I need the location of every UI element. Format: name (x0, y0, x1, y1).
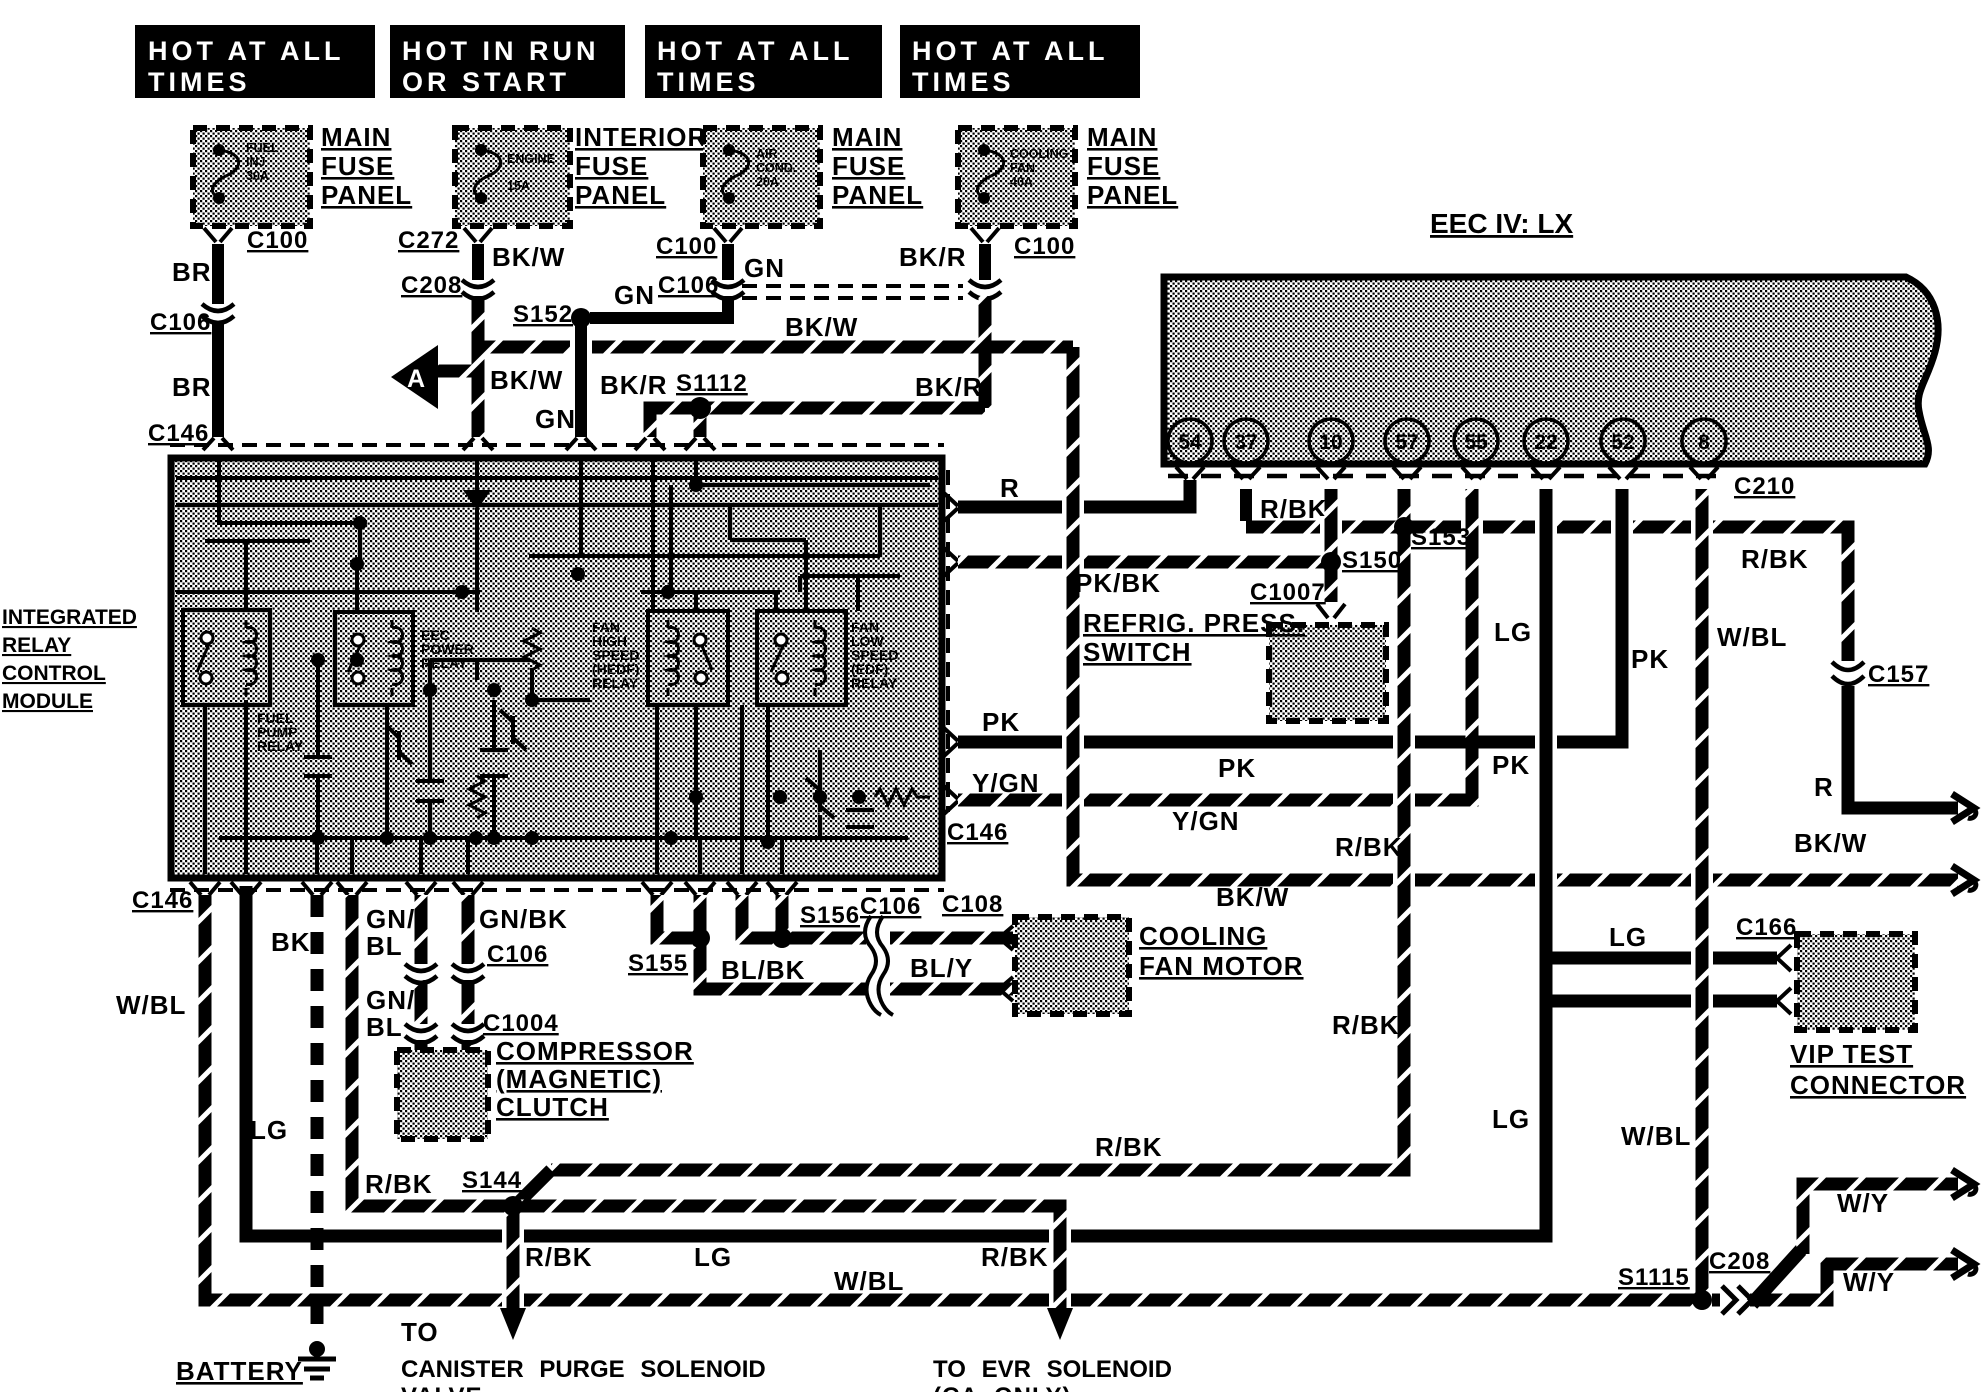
svg-text:HOT AT ALL: HOT AT ALL (148, 36, 344, 66)
svg-text:VALVE: VALVE (401, 1383, 482, 1392)
bottom destination labels (401, 1317, 766, 1392)
svg-text:BK/W: BK/W (1216, 882, 1289, 912)
svg-text:W/BL: W/BL (834, 1266, 904, 1296)
svg-text:BL/BK: BL/BK (721, 955, 805, 985)
wire C208 lower vertical to C146 (472, 347, 485, 437)
svg-text:LG: LG (250, 1115, 288, 1145)
C146 funnels at top line (203, 438, 715, 450)
svg-text:PK: PK (1218, 753, 1256, 783)
pin 55 (1454, 419, 1498, 463)
svg-text:S150: S150 (1342, 547, 1402, 574)
connector line C210 (1168, 473, 1795, 500)
svg-text:INJ: INJ (246, 155, 266, 169)
svg-text:W/BL: W/BL (116, 990, 186, 1020)
svg-text:(CA. ONLY): (CA. ONLY) (933, 1383, 1071, 1392)
compressor magnetic clutch box (397, 1036, 694, 1139)
svg-text:C146: C146 (148, 420, 209, 447)
svg-text:C106: C106 (658, 272, 719, 299)
svg-text:C1004: C1004 (483, 1010, 559, 1037)
wire LG from EEC pin 22 via VIP to module (246, 489, 1777, 1272)
svg-text:C100: C100 (1014, 233, 1075, 260)
svg-text:CANISTER PURGE SOLENOID: CANISTER PURGE SOLENOID (401, 1356, 766, 1383)
C146 bottom funnels (190, 882, 797, 895)
node S144 (462, 1167, 522, 1194)
module right edge exit chevrons (944, 493, 958, 814)
svg-text:C100: C100 (247, 227, 308, 254)
wire W/BL from EEC pin 8 down to S1115 (1621, 489, 1787, 1294)
svg-text:LG: LG (694, 1242, 732, 1272)
svg-text:55: 55 (1464, 431, 1488, 454)
svg-text:R/BK: R/BK (365, 1169, 433, 1199)
svg-text:57: 57 (1395, 431, 1418, 454)
svg-text:GN/: GN/ (366, 985, 415, 1015)
svg-text:CONTROL: CONTROL (2, 662, 106, 685)
internal wire rails (219, 461, 360, 523)
svg-text:R/BK: R/BK (981, 1242, 1049, 1272)
svg-text:R/BK: R/BK (1260, 494, 1328, 524)
resistor R int 2 (469, 776, 485, 818)
node S152 (513, 301, 590, 328)
transistor Q3 (806, 778, 834, 818)
svg-text:BR: BR (172, 257, 212, 287)
svg-text:FUSE: FUSE (575, 151, 648, 181)
svg-text:GN/: GN/ (366, 904, 415, 934)
svg-text:S152: S152 (513, 301, 573, 328)
svg-text:OR START: OR START (402, 67, 570, 97)
svg-text:BK/W: BK/W (490, 365, 563, 395)
svg-text:COOLING: COOLING (1139, 921, 1267, 951)
svg-text:C108: C108 (942, 891, 1003, 918)
svg-text:S1112: S1112 (676, 370, 748, 397)
svg-text:S153: S153 (1411, 524, 1471, 551)
svg-text:PK: PK (1631, 644, 1669, 674)
pin 57 (1385, 419, 1429, 463)
svg-text:30A: 30A (246, 169, 269, 183)
svg-text:22: 22 (1534, 431, 1557, 454)
svg-text:BK/R: BK/R (899, 242, 967, 272)
integrated relay control module box (171, 458, 942, 878)
svg-text:COMPRESSOR: COMPRESSOR (496, 1036, 694, 1066)
svg-text:W/Y: W/Y (1843, 1267, 1895, 1297)
svg-text:MAIN: MAIN (1087, 122, 1157, 152)
fuse AIR COND 20A in main fuse panel (703, 128, 820, 226)
svg-text:PANEL: PANEL (575, 180, 666, 210)
svg-text:CLUTCH: CLUTCH (496, 1092, 609, 1122)
EEC IV LX module box (1164, 208, 1938, 464)
svg-text:INTEGRATED: INTEGRATED (2, 606, 137, 629)
svg-text:PANEL: PANEL (321, 180, 412, 210)
resistor R int 1 (524, 628, 540, 670)
node S1112 (676, 370, 748, 437)
svg-text:C106: C106 (487, 941, 548, 968)
relay fan high speed HEDF (592, 611, 728, 705)
svg-text:PK: PK (1492, 750, 1530, 780)
fuse FUEL INJ 30A in main fuse panel (193, 128, 310, 226)
svg-text:SWITCH: SWITCH (1083, 637, 1192, 667)
svg-text:C166: C166 (1736, 914, 1797, 941)
pin 37 (1224, 419, 1268, 463)
svg-text:HOT IN RUN: HOT IN RUN (402, 36, 600, 66)
cooling fan motor box (942, 891, 1304, 1014)
pin 10 (1309, 419, 1353, 463)
svg-text:TIMES: TIMES (148, 67, 251, 97)
wire W/BL from module down and long run to S1115 (116, 895, 1695, 1300)
svg-text:40A: 40A (1010, 175, 1033, 189)
svg-text:52: 52 (1611, 431, 1634, 454)
wire BK/W from engine fuse via C208 (398, 227, 565, 437)
wire GN from S152 down to C146 (535, 318, 581, 437)
svg-text:C146: C146 (947, 819, 1008, 846)
connector line C146 bottom (132, 887, 944, 914)
svg-text:C272: C272 (398, 227, 459, 254)
capacitor C int 2 (416, 781, 444, 801)
svg-text:FAN MOTOR: FAN MOTOR (1139, 951, 1304, 981)
pin 22 (1524, 419, 1568, 463)
svg-text:VIP TEST: VIP TEST (1790, 1039, 1913, 1069)
svg-text:(MAGNETIC): (MAGNETIC) (496, 1064, 662, 1094)
wire BK/R from cooling fan fuse (899, 228, 1075, 408)
svg-text:W/BL: W/BL (1621, 1121, 1691, 1151)
svg-text:GN/BK: GN/BK (479, 904, 568, 934)
svg-text:TIMES: TIMES (912, 67, 1015, 97)
diode (463, 461, 491, 523)
resistor R int 3 (875, 789, 930, 805)
wire BR from fuel inj fuse (150, 227, 308, 437)
wires to cooling fan motor via S155 (628, 895, 1013, 989)
wire GN/BK to compressor clutch (452, 895, 568, 1050)
svg-text:MAIN: MAIN (832, 122, 902, 152)
svg-text:8: 8 (1698, 431, 1710, 454)
capacitor C int 4 (846, 810, 874, 827)
svg-text:AIR: AIR (756, 147, 778, 161)
svg-text:R/BK: R/BK (525, 1242, 593, 1272)
svg-text:Y/GN: Y/GN (972, 768, 1040, 798)
svg-text:PK: PK (982, 707, 1020, 737)
svg-text:C106: C106 (860, 893, 921, 920)
svg-text:W/BL: W/BL (1717, 622, 1787, 652)
pin 8 (1682, 419, 1726, 463)
svg-text:RELAY: RELAY (592, 675, 639, 691)
svg-text:MAIN: MAIN (321, 122, 391, 152)
svg-text:R/BK: R/BK (1332, 1010, 1400, 1040)
svg-text:BK/W: BK/W (1794, 828, 1867, 858)
svg-text:R: R (1814, 772, 1834, 802)
svg-text:COOLING: COOLING (1010, 147, 1068, 161)
wire GN from air cond fuse (590, 228, 785, 318)
wires to cooling fan motor via S156 (742, 893, 1013, 1016)
svg-text:PK/BK: PK/BK (1075, 568, 1161, 598)
svg-text:BATTERY: BATTERY (176, 1356, 303, 1386)
svg-text:TO: TO (401, 1317, 439, 1347)
svg-text:COND.: COND. (756, 161, 796, 175)
svg-text:FAN: FAN (1010, 161, 1035, 175)
svg-text:HOT AT ALL: HOT AT ALL (657, 36, 853, 66)
VIP test connector box (1736, 914, 1966, 1100)
wire BK dashed battery ground (271, 895, 317, 1336)
svg-text:ENGINE: ENGINE (507, 152, 555, 166)
transistor Q1 (387, 726, 412, 764)
wire BK/R horizontal run to S1112 (600, 370, 985, 437)
header box HOT AT ALL TIMES 3 (900, 25, 1140, 98)
header box HOT IN RUN OR START (390, 25, 625, 98)
label INTEGRATED RELAY CONTROL MODULE (2, 606, 137, 713)
svg-text:S1115: S1115 (1618, 1264, 1690, 1291)
svg-text:TIMES: TIMES (657, 67, 760, 97)
svg-text:GN: GN (614, 280, 655, 310)
svg-text:20A: 20A (756, 175, 779, 189)
relay fan low speed EDF (757, 611, 898, 705)
svg-text:BK/R: BK/R (915, 372, 983, 402)
svg-text:C106: C106 (150, 309, 211, 336)
svg-text:PANEL: PANEL (1087, 180, 1178, 210)
svg-text:EEC IV: LX: EEC IV: LX (1430, 208, 1573, 239)
svg-text:S156: S156 (800, 902, 860, 929)
svg-text:LG: LG (1492, 1104, 1530, 1134)
relay EEC power (335, 612, 474, 705)
wire R from module to EEC pin 54 (958, 473, 1190, 507)
node S153 (1394, 517, 1471, 551)
wire W/Y lower branch after C208 (1750, 1250, 1976, 1300)
svg-text:BL/Y: BL/Y (910, 953, 973, 983)
arrow A to sheet A (391, 345, 563, 409)
fuse ENGINE 15A in interior fuse panel (455, 128, 570, 226)
pin 54 (1168, 419, 1212, 463)
svg-text:A: A (407, 365, 425, 393)
wire R/BK from S144 down to canister purge (500, 1196, 593, 1340)
relay fuel pump (183, 610, 304, 754)
pin 52 (1601, 419, 1645, 463)
wire R/BK from EEC pin 37 to C157 (1246, 489, 1929, 688)
node S150 (1250, 547, 1402, 618)
svg-text:RELAY: RELAY (2, 634, 71, 657)
svg-text:BK: BK (271, 927, 311, 957)
wire R/BK from module down across to EVR solenoid (352, 895, 1163, 1340)
wire from EEC pin 10 to S150 (1320, 489, 1342, 562)
connector C208 break on W/BL run (1709, 1248, 1770, 1314)
internal bottom bus (219, 836, 908, 840)
wire R/BK from EEC pin 57 through S153 down to S144 run (519, 489, 1415, 1202)
svg-text:R/BK: R/BK (1335, 832, 1403, 862)
label MAIN FUSE PANEL 3 (1087, 122, 1178, 210)
svg-text:RELAY: RELAY (257, 738, 304, 754)
wire BK/W long run from C208 wire (478, 312, 1073, 358)
label MAIN FUSE PANEL 1 (321, 122, 412, 210)
svg-text:C208: C208 (401, 272, 462, 299)
svg-text:FUSE: FUSE (321, 151, 394, 181)
wire W/Y upper branch after C208 (1752, 1170, 1976, 1304)
double dashed line between C106 connectors (742, 286, 963, 298)
wire Y/GN from EEC pin 55 to module (958, 489, 1483, 836)
svg-text:R: R (1000, 473, 1020, 503)
svg-text:S144: S144 (462, 1167, 522, 1194)
connector line C146 top (170, 443, 944, 447)
wire PK/BK from module to S150 (958, 562, 1332, 598)
label INTERIOR FUSE PANEL (575, 122, 707, 210)
refrigerant pressure switch box (1083, 608, 1386, 721)
svg-text:FUSE: FUSE (1087, 151, 1160, 181)
svg-text:CONNECTOR: CONNECTOR (1790, 1070, 1966, 1100)
svg-text:RELAY: RELAY (851, 675, 898, 691)
ground symbol battery (176, 1341, 336, 1386)
C210 pin connector funnels (1176, 467, 1718, 479)
svg-text:GN: GN (535, 404, 576, 434)
svg-text:BK/W: BK/W (492, 242, 565, 272)
junction dots internal (311, 478, 866, 849)
svg-text:INTERIOR: INTERIOR (575, 122, 707, 152)
label MAIN FUSE PANEL 2 (832, 122, 923, 210)
svg-text:R/BK: R/BK (1741, 544, 1809, 574)
svg-text:C208: C208 (1709, 1248, 1770, 1275)
header box HOT AT ALL TIMES 2 (645, 25, 882, 98)
wire GN/BL to compressor clutch (366, 895, 437, 1050)
svg-text:C146: C146 (132, 887, 193, 914)
svg-text:C1007: C1007 (1250, 579, 1326, 606)
svg-text:15A: 15A (507, 179, 530, 193)
svg-text:LG: LG (1494, 617, 1532, 647)
svg-text:37: 37 (1234, 431, 1257, 454)
svg-text:BK/W: BK/W (785, 312, 858, 342)
svg-text:C210: C210 (1734, 473, 1795, 500)
svg-text:W/Y: W/Y (1837, 1188, 1889, 1218)
svg-text:Y/GN: Y/GN (1172, 806, 1240, 836)
svg-text:MODULE: MODULE (2, 690, 93, 713)
svg-text:10: 10 (1319, 431, 1342, 454)
svg-text:LG: LG (1609, 922, 1647, 952)
wire PK from EEC pin 52 to module (958, 489, 1669, 783)
transistor Q2 (500, 710, 526, 750)
svg-text:RELAY: RELAY (421, 655, 468, 671)
svg-text:BR: BR (172, 372, 212, 402)
svg-text:C157: C157 (1868, 661, 1929, 688)
svg-text:TO EVR SOLENOID: TO EVR SOLENOID (933, 1356, 1172, 1383)
connector line C146 right side (947, 470, 1008, 846)
capacitor C int 1 (304, 757, 332, 776)
svg-text:54: 54 (1178, 431, 1202, 454)
wire R from C157 to edge arrow (1814, 686, 1976, 822)
svg-text:BL: BL (366, 931, 403, 961)
header box HOT AT ALL TIMES 1 (135, 25, 375, 98)
svg-text:PANEL: PANEL (832, 180, 923, 210)
svg-text:HOT AT ALL: HOT AT ALL (912, 36, 1108, 66)
redraw GN vertical over BK/W crossing (575, 330, 587, 437)
svg-text:BK/R: BK/R (600, 370, 668, 400)
node S1115 (1618, 1264, 1712, 1310)
svg-text:S155: S155 (628, 950, 688, 977)
svg-text:GN: GN (744, 253, 785, 283)
svg-text:REFRIG. PRESS.: REFRIG. PRESS. (1083, 608, 1305, 638)
svg-text:FUEL: FUEL (246, 141, 279, 155)
svg-text:BL: BL (366, 1012, 403, 1042)
svg-text:C100: C100 (656, 233, 717, 260)
fuse COOLING FAN 40A in main fuse panel (958, 128, 1075, 226)
capacitor C int 3 (480, 750, 508, 776)
svg-text:FUSE: FUSE (832, 151, 905, 181)
svg-text:R/BK: R/BK (1095, 1132, 1163, 1162)
wire BK/W vertical and long bottom run to edge arrow (1062, 347, 1976, 912)
